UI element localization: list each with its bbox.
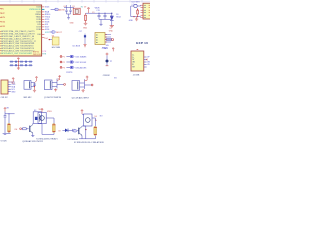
capacitor C4 (25, 61, 26, 63)
svg-text:K3: K3 (34, 110, 36, 112)
U1 right net labels (blue) (45, 7, 51, 32)
decoupling cap bank bottom rail wire (10, 64, 33, 66)
ground under diode (red) (110, 26, 114, 28)
capacitor C2 (15, 61, 16, 63)
U1 lower-left pin name rows (navy) (1, 30, 37, 52)
U1 right pin name texts inside (navy, right aligned) (35, 7, 41, 36)
svg-text:CN1 I2C: CN1 I2C (1, 97, 9, 99)
U5 pin wires (52, 79, 57, 89)
no-connect X mark red (146, 59, 148, 61)
svg-text:SS14: SS14 (116, 17, 120, 19)
J1 pin stubs (8, 82, 11, 92)
svg-text:J2 USB: J2 USB (133, 74, 140, 76)
main power rail wire (86, 12, 112, 14)
junction dot (18, 65, 19, 66)
junction dot red (34, 86, 35, 87)
transistor Q3 (30, 125, 33, 134)
MK1 inner bar (28, 81, 30, 88)
opto inner led square (35, 117, 38, 120)
wire K2 right to diode D4 (92, 118, 95, 126)
ground below crystal caps (67, 14, 70, 19)
port row 2: pin symbol (60, 61, 87, 64)
junction dot (49, 39, 50, 40)
resistor R9 vertical red (137, 9, 139, 16)
svg-text:D3 PWRLED: D3 PWRLED (68, 139, 79, 141)
svg-text:IO35 ADC/EX: IO35 ADC/EX (75, 66, 87, 69)
wire input to resistor (22, 128, 29, 130)
svg-text:Q2 LDR ADC INPUT: Q2 LDR ADC INPUT (72, 97, 90, 100)
sheet border ruler line (0, 0, 150, 3)
U6 pin wires (80, 79, 85, 89)
wire down from flag (4, 111, 6, 115)
junction dot (98, 13, 99, 14)
bottom rail of caps (99, 18, 112, 20)
resistor R3 (23, 128, 27, 130)
svg-text:GND: GND (109, 31, 114, 33)
U1 left pin stubs red (0, 9, 1, 54)
svg-text:Y2 32K: Y2 32K (0, 140, 7, 142)
input port arrow to Q4 (74, 130, 78, 132)
wire K1 right to diode (46, 118, 54, 124)
IC U3 (mid right) (131, 51, 144, 71)
junction dot (104, 13, 105, 14)
ground under U6 red (82, 89, 85, 92)
cap C17 with power left of U7 (79, 31, 87, 47)
wire flag to K2 (82, 114, 84, 115)
input pin circle for opto K3 (20, 128, 22, 130)
svg-text:GND: GND (83, 27, 88, 29)
capacitor C10b (30, 64, 31, 66)
resistor R5 plates (73, 129, 77, 132)
capacitor C7b (15, 64, 16, 66)
svg-text:GND: GND (129, 20, 134, 22)
diode D2 (yellow pill) (52, 124, 55, 135)
ground under mic red (33, 87, 36, 93)
sensor box U5 (45, 80, 53, 90)
svg-text:SVN: SVN (1, 17, 6, 19)
capacitor C9b (25, 64, 26, 66)
svg-text:WROOM: WROOM (33, 54, 41, 56)
capacitor C15 (98, 13, 101, 19)
svg-text:GND: GND (70, 23, 75, 25)
svg-text:VDD5: VDD5 (47, 111, 52, 113)
port arrow VSPI (55, 8, 59, 10)
junction dot (137, 16, 138, 17)
svg-text:P1: P1 (63, 56, 65, 58)
junction dot (18, 61, 19, 62)
fuse F1 (red body) (84, 13, 86, 23)
port row 1: pin symbol (60, 55, 87, 58)
U3 inside pin names (vertical column) (132, 54, 135, 68)
svg-text:SVP: SVP (1, 13, 6, 15)
svg-text:U7: U7 (110, 28, 112, 30)
output wire U6 (85, 84, 92, 86)
power flag above mic (35, 77, 38, 83)
ground under caps rail (99, 19, 102, 25)
op IC U1 ESP32 module body (0, 5, 42, 56)
relay K2 coil circle (86, 118, 91, 123)
Q4 emitter wire down (81, 135, 83, 138)
capacitor C8b (21, 64, 22, 66)
wire K1 bottom (41, 124, 43, 135)
svg-text:MK1 MIC: MK1 MIC (24, 97, 33, 99)
RTC power flag bottom left (4, 108, 7, 112)
node wires to header right of U1 area (106, 38, 112, 40)
Q3 collector wire (32, 123, 34, 124)
capacitor C9 beside mic (33, 84, 36, 85)
junction dot red (85, 129, 86, 130)
svg-text:IO22 SCL/EX: IO22 SCL/EX (75, 62, 87, 64)
Q4 collector wire up to K2 (82, 125, 86, 128)
svg-text:GPIO2 ADC2_CH2 TOUCH2 HSPI: GPIO2 ADC2_CH2 TOUCH2 HSPI (1, 52, 32, 55)
wire K1 bottom rail (42, 133, 54, 135)
svg-text:X1: X1 (72, 6, 74, 8)
U1 left pin name texts (red) (1, 8, 6, 28)
wire crystal bottom rail (67, 13, 71, 15)
U1 highlighted pin stub (teal) (42, 8, 45, 10)
IC U2 (top right, clipped at edge) (143, 3, 152, 19)
wire IO0 row to port (49, 31, 52, 33)
U3 right pin stubs (144, 57, 147, 67)
wire stubs up from crystal caps (67, 5, 71, 7)
port row 3: pin symbol (60, 66, 87, 69)
relay K1 power flag (41, 108, 44, 112)
svg-text:AHT20: AHT20 (102, 47, 108, 50)
relay K2 box (84, 114, 92, 126)
U1 right pin stubs (red) (42, 7, 45, 38)
U2 right-edge pin number marks red (149, 5, 150, 15)
output wire U5 (57, 83, 64, 85)
svg-text:BOOT: BOOT (56, 32, 62, 34)
U7 right pin pads red (105, 35, 107, 43)
svg-text:L1: L1 (132, 4, 134, 6)
svg-text:IO4: IO4 (14, 129, 17, 131)
svg-text:HDC1080: HDC1080 (52, 47, 60, 49)
port arrow IO0 (52, 31, 56, 33)
capacitor C5 (30, 61, 31, 63)
ground under Q3 (31, 136, 34, 137)
svg-text:Q1 DHT11 TEMP IN: Q1 DHT11 TEMP IN (44, 97, 62, 99)
ground under U2 loop (135, 17, 138, 21)
bottom rail K2 (79, 138, 95, 140)
svg-text:K2 SRD-05VDC-SL-C RELAY MOD: K2 SRD-05VDC-SL-C RELAY MOD (74, 141, 105, 144)
svg-text:VSPID/MOSI: VSPID/MOSI (29, 9, 41, 11)
svg-text:IO21 SDA/EX: IO21 SDA/EX (75, 55, 87, 58)
opto inner bars (39, 114, 40, 122)
relay K1 box (38, 112, 46, 123)
U2 inner pin name marks (144, 5, 146, 17)
svg-text:K1 SRD-05VDC RELAY1: K1 SRD-05VDC RELAY1 (36, 138, 57, 141)
wire U1 to U4 (49, 39, 52, 41)
junction dot (133, 16, 134, 17)
wire to crystal Y2 (8, 114, 10, 124)
crystal Y2 (yellow pill) (8, 123, 11, 133)
U2 left pin stubs red (141, 5, 144, 17)
wire VSPI row to port (51, 8, 55, 10)
battery BT1 vertical (106, 53, 109, 66)
capacitor C7 (69, 7, 71, 14)
svg-text:P2: P2 (63, 62, 65, 64)
sensor box U6 (72, 81, 80, 91)
diode D4 (yellow pill) (94, 126, 97, 138)
Q3 emitter wire to ground (32, 133, 34, 135)
capacitor C1 (11, 61, 12, 63)
svg-text:D4: D4 (95, 116, 97, 118)
capacitor C6 (65, 7, 67, 14)
U5 inner bar (49, 81, 51, 89)
component U4 small yellow box (52, 37, 59, 45)
svg-text:EXP 10: EXP 10 (136, 41, 148, 45)
capacitor C6b (11, 64, 12, 66)
pin circle red (91, 84, 93, 86)
wire K2 bottom to rail (85, 126, 87, 139)
svg-text:I2C BUS: I2C BUS (73, 46, 81, 48)
pin circle red (112, 39, 114, 41)
U3 pin1 mark red (top) (137, 49, 139, 51)
wire crystal top rail (64, 6, 74, 8)
svg-text:GND: GND (11, 91, 16, 93)
svg-text:C17: C17 (79, 31, 82, 33)
junction dot (8, 113, 9, 114)
capacitor C12 (4, 116, 7, 134)
connector J1 (left) (1, 80, 8, 94)
power flag VBUS (87, 8, 90, 13)
wire U2 input loop left vertical (131, 5, 141, 17)
ground below cap bank (17, 68, 20, 70)
svg-text:U4: U4 (52, 35, 54, 37)
junction dot red (111, 13, 112, 14)
capacitor C16 (104, 13, 107, 19)
relay K1 coil circle (40, 116, 45, 121)
relay K2 power flag (81, 110, 84, 114)
power flag above U5 (57, 76, 61, 81)
crystal X1 (73, 8, 80, 14)
inductor L1 (circle) (134, 4, 137, 7)
svg-text:P3: P3 (63, 67, 65, 69)
svg-text:C6: C6 (63, 6, 65, 8)
U6 inner bar (77, 81, 79, 89)
opto box K3 (33, 112, 41, 124)
svg-text:C15: C15 (96, 10, 99, 12)
ground rail bottom left (3, 133, 11, 134)
wire port to Q4 base (77, 130, 78, 132)
power flag 3V3 on cap bank (17, 58, 20, 68)
pin circle red (64, 84, 66, 86)
IC U7 (small, mid) (95, 33, 105, 45)
power flag above U6 (85, 76, 89, 81)
microphone MK1 box (24, 81, 31, 90)
capacitor C3 (21, 61, 22, 63)
U7 right pin stubs and wires (105, 35, 111, 43)
ground under fuse (red) (84, 23, 88, 25)
svg-text:CR2032: CR2032 (103, 75, 110, 77)
junction dot red (137, 9, 138, 10)
MK1 pin wires (31, 83, 35, 87)
transistor Q4 (79, 127, 82, 136)
svg-text:a: a (58, 78, 59, 80)
power flag above J1 pins (11, 78, 15, 82)
diode D1 vertical (110, 13, 114, 25)
svg-text:MOSI: MOSI (59, 9, 65, 11)
decoupling cap bank top rail wire (10, 61, 33, 63)
J1 net labels blue (11, 82, 16, 94)
U7 inner left pin marks (96, 35, 98, 43)
LED D3 (62, 129, 72, 133)
U3 right labels blue (147, 57, 150, 66)
svg-text:PORTS: PORTS (66, 72, 73, 74)
wire horizontal (5, 113, 15, 115)
ground under U5 red (54, 88, 57, 91)
power flag small above U3 (112, 48, 114, 52)
